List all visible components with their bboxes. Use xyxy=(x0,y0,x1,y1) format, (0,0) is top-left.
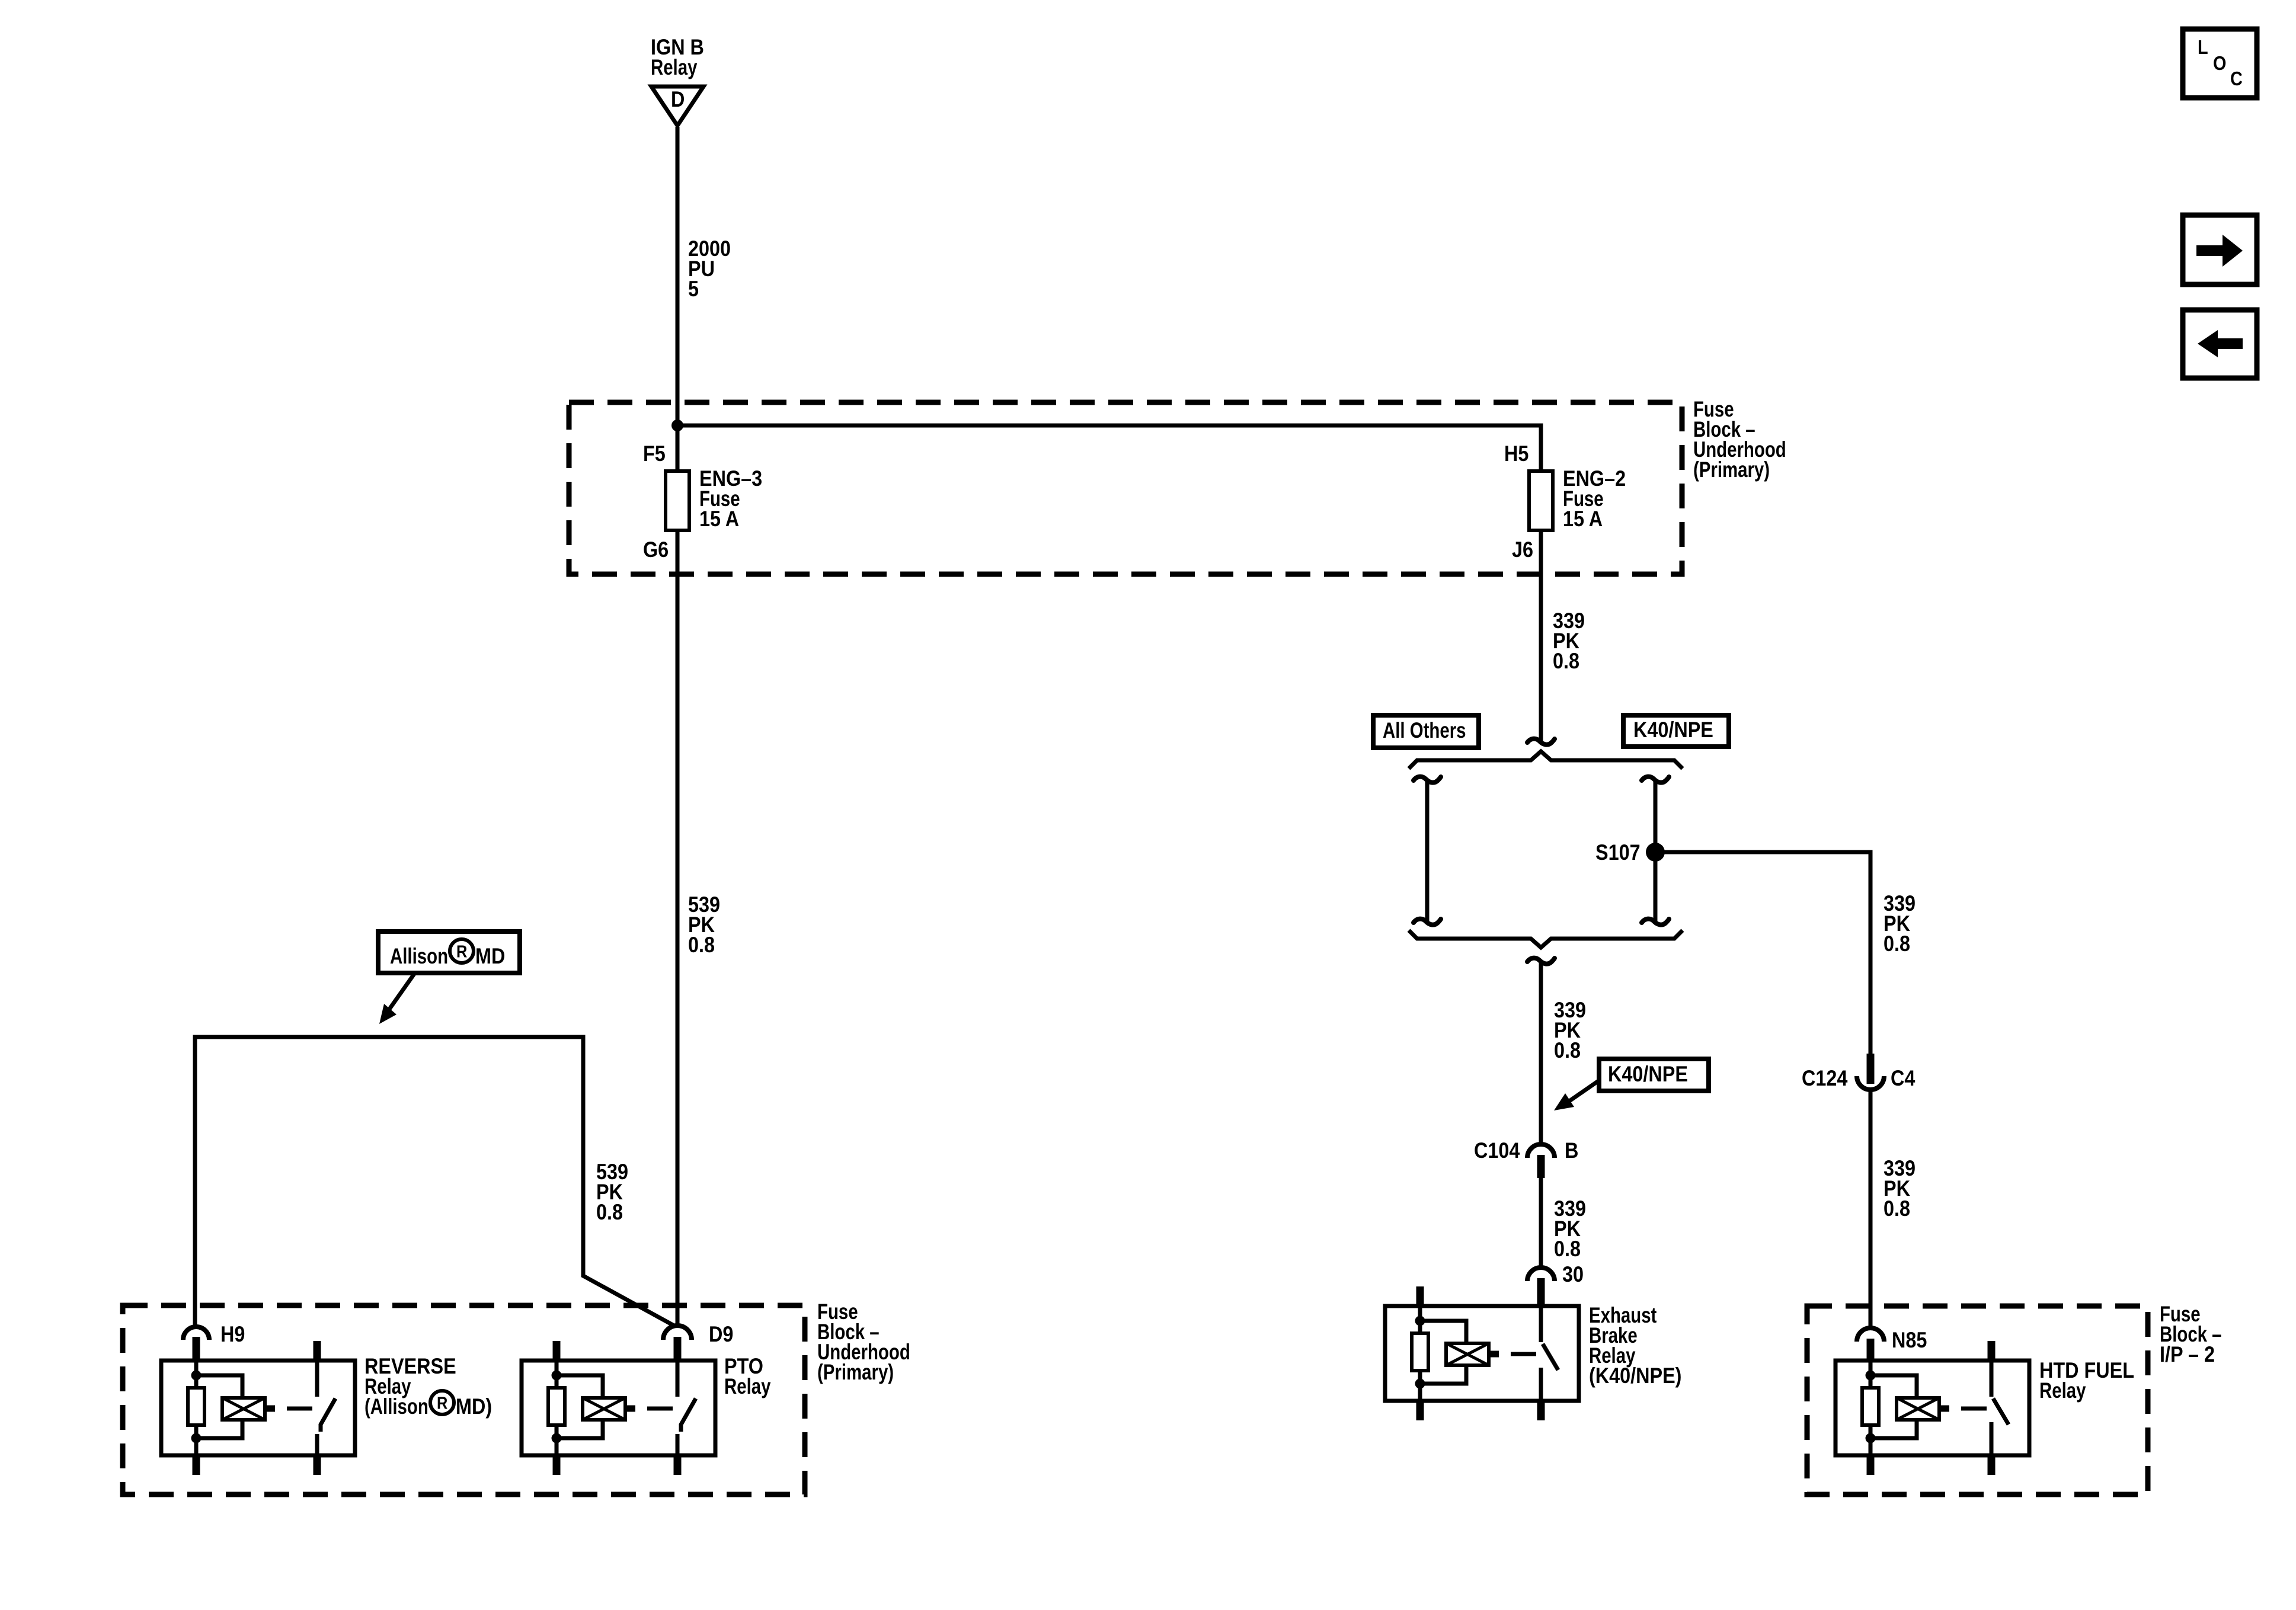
svg-text:C124: C124 xyxy=(1802,1067,1848,1090)
svg-text:Relay: Relay xyxy=(2039,1379,2086,1403)
svg-text:Block –: Block – xyxy=(2160,1323,2222,1347)
svg-text:H5: H5 xyxy=(1504,442,1528,466)
svg-text:0.8: 0.8 xyxy=(1884,932,1910,956)
svg-text:MD: MD xyxy=(475,945,505,968)
svg-text:L: L xyxy=(2198,36,2208,58)
svg-text:K40/NPE: K40/NPE xyxy=(1608,1062,1688,1086)
svg-text:K40/NPE: K40/NPE xyxy=(1633,718,1713,742)
svg-text:H9: H9 xyxy=(220,1323,245,1346)
svg-text:S107: S107 xyxy=(1595,841,1641,865)
svg-text:G6: G6 xyxy=(643,538,669,562)
svg-text:0.8: 0.8 xyxy=(688,933,715,957)
svg-text:Relay: Relay xyxy=(724,1375,771,1399)
svg-text:Fuse: Fuse xyxy=(699,487,740,511)
svg-text:N85: N85 xyxy=(1892,1329,1927,1352)
svg-text:Relay: Relay xyxy=(651,56,698,80)
svg-text:0.8: 0.8 xyxy=(1553,649,1579,673)
svg-text:MD): MD) xyxy=(456,1395,492,1419)
svg-text:(Primary): (Primary) xyxy=(817,1361,894,1385)
svg-text:B: B xyxy=(1565,1139,1578,1163)
svg-text:0.8: 0.8 xyxy=(1884,1197,1910,1221)
svg-text:O: O xyxy=(2213,52,2226,74)
svg-text:D: D xyxy=(671,88,685,111)
svg-text:R: R xyxy=(456,942,468,961)
svg-text:(Allison: (Allison xyxy=(364,1395,428,1419)
svg-text:R: R xyxy=(437,1393,448,1413)
svg-text:Fuse: Fuse xyxy=(1563,487,1604,511)
svg-text:D9: D9 xyxy=(709,1323,733,1346)
svg-text:0.8: 0.8 xyxy=(596,1201,623,1224)
svg-text:5: 5 xyxy=(688,277,699,301)
svg-text:0.8: 0.8 xyxy=(1554,1237,1581,1261)
svg-text:F5: F5 xyxy=(643,442,666,466)
svg-text:All Others: All Others xyxy=(1383,719,1466,743)
svg-text:30: 30 xyxy=(1562,1263,1584,1286)
svg-text:Relay: Relay xyxy=(1589,1344,1636,1368)
svg-text:0.8: 0.8 xyxy=(1554,1039,1581,1062)
svg-text:(Primary): (Primary) xyxy=(1693,458,1770,482)
svg-text:C: C xyxy=(2230,68,2243,89)
svg-text:Allison: Allison xyxy=(390,945,448,969)
svg-text:J6: J6 xyxy=(1512,538,1533,562)
svg-text:C4: C4 xyxy=(1891,1067,1916,1090)
svg-text:C104: C104 xyxy=(1474,1139,1520,1163)
